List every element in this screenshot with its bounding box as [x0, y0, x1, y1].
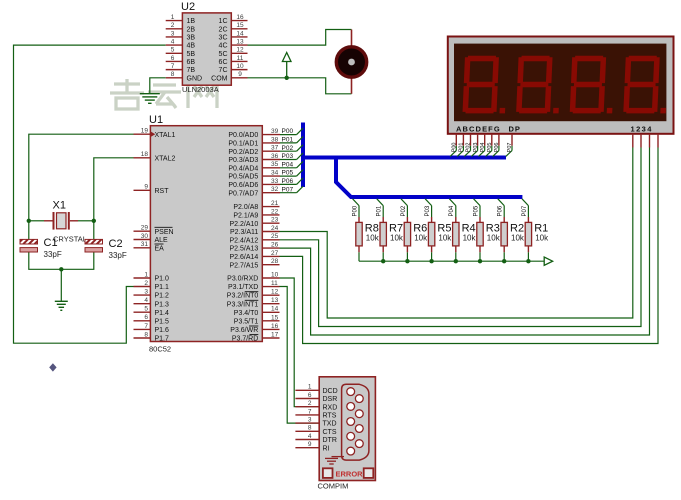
ground crystal	[55, 301, 68, 310]
svg-text:10: 10	[236, 63, 244, 70]
display digit pins 1-4	[633, 134, 658, 148]
svg-text:15: 15	[236, 22, 244, 29]
bus branch down to resistor network	[336, 156, 522, 197]
svg-text:32: 32	[271, 186, 279, 193]
resistor R5 10k	[425, 199, 452, 261]
svg-text:26: 26	[271, 242, 279, 249]
svg-text:C1: C1	[44, 237, 58, 249]
svg-text:P0.2/AD2: P0.2/AD2	[228, 149, 258, 156]
svg-text:37: 37	[271, 145, 279, 152]
svg-text:10k: 10k	[390, 234, 404, 243]
svg-text:9: 9	[144, 184, 148, 191]
svg-text:P2.1/A9: P2.1/A9	[233, 213, 258, 220]
svg-text:39: 39	[271, 128, 279, 135]
junction cap ground node	[59, 267, 63, 271]
wire P2.5 to display digit 3	[280, 148, 650, 336]
svg-text:5: 5	[144, 306, 148, 313]
svg-text:2: 2	[144, 280, 148, 287]
svg-text:ERROR: ERROR	[336, 470, 364, 479]
svg-text:P2.4/A12: P2.4/A12	[229, 237, 258, 244]
wire U2 GND to ground	[150, 78, 166, 94]
svg-text:5C: 5C	[219, 51, 228, 58]
resistor R4 10k	[449, 199, 476, 261]
svg-text:6: 6	[308, 392, 312, 399]
svg-text:RI: RI	[323, 445, 330, 452]
bus horizontal to display segment pins	[301, 156, 506, 160]
svg-text:6C: 6C	[219, 59, 228, 66]
crystal X1	[44, 200, 87, 244]
svg-text:4: 4	[144, 297, 148, 304]
svg-text:4B: 4B	[187, 43, 196, 50]
svg-text:P3.4/T0: P3.4/T0	[234, 310, 259, 317]
svg-text:X1: X1	[53, 200, 66, 212]
power arrow right	[544, 257, 552, 265]
svg-text:3C: 3C	[219, 35, 228, 42]
junction R5 bottom	[429, 259, 433, 263]
svg-text:C2: C2	[109, 238, 123, 250]
capacitor C1	[20, 237, 62, 259]
svg-text:16: 16	[236, 14, 244, 21]
svg-text:14: 14	[271, 306, 279, 313]
resistor R8 10k	[352, 199, 379, 261]
svg-text:ULN2003A: ULN2003A	[182, 85, 219, 94]
svg-text:P0.3/AD3: P0.3/AD3	[228, 157, 258, 164]
origin marker	[49, 363, 56, 371]
svg-text:8: 8	[308, 425, 312, 432]
svg-text:P1.2: P1.2	[155, 293, 170, 300]
svg-text:3B: 3B	[187, 35, 196, 42]
junction R3 bottom	[478, 259, 482, 263]
svg-text:1B: 1B	[187, 18, 196, 25]
svg-text:P06: P06	[494, 143, 500, 153]
svg-text:P2.6/A14: P2.6/A14	[229, 254, 258, 261]
svg-text:P0.0/AD0: P0.0/AD0	[228, 132, 258, 139]
svg-text:11: 11	[271, 280, 278, 287]
display digit 2	[516, 56, 561, 114]
microcontroller U1 80C52	[134, 114, 294, 354]
svg-text:P0.6/AD6: P0.6/AD6	[228, 182, 258, 189]
svg-text:8: 8	[171, 71, 175, 78]
svg-text:P2.7/A15: P2.7/A15	[229, 262, 258, 269]
display digit 1	[462, 56, 507, 114]
svg-text:7: 7	[144, 323, 148, 330]
svg-text:P1.5: P1.5	[155, 318, 170, 325]
wire XTAL2 to crystal right node	[94, 158, 134, 240]
svg-text:P2.5/A13: P2.5/A13	[229, 246, 258, 253]
svg-text:RTS: RTS	[323, 413, 337, 420]
svg-text:34: 34	[271, 170, 279, 177]
junction R2 bottom	[502, 259, 506, 263]
svg-text:P3.3/INT1: P3.3/INT1	[227, 301, 259, 308]
resistor R6 10k	[401, 199, 428, 261]
wire U2 COM to sounder bottom	[248, 78, 352, 94]
svg-text:13: 13	[271, 297, 279, 304]
resistor R3 10k	[473, 199, 500, 261]
svg-text:33: 33	[271, 178, 279, 185]
svg-text:DP: DP	[509, 124, 521, 133]
svg-text:7C: 7C	[219, 67, 228, 74]
junction R1 bottom	[526, 259, 530, 263]
svg-text:35: 35	[271, 161, 279, 168]
svg-text:24: 24	[271, 225, 279, 232]
svg-text:10k: 10k	[463, 234, 477, 243]
node crystal right	[92, 219, 96, 223]
svg-text:P02: P02	[466, 143, 472, 153]
junction R6 bottom	[405, 259, 409, 263]
wire P3.1 TXD to COMPIM	[280, 287, 320, 424]
svg-text:4C: 4C	[219, 43, 228, 50]
svg-text:10: 10	[271, 271, 279, 278]
wire P2.3 to display digit 1	[280, 148, 633, 319]
svg-text:ALE: ALE	[155, 237, 169, 244]
svg-text:P3.1/TXD: P3.1/TXD	[228, 284, 258, 291]
svg-text:15: 15	[271, 314, 279, 321]
serial connector P1 COMPIM	[295, 377, 375, 491]
svg-text:2C: 2C	[219, 26, 228, 33]
svg-text:P1.7: P1.7	[155, 336, 170, 343]
wire C1 C2 bottoms	[29, 252, 94, 269]
svg-text:RXD: RXD	[323, 404, 338, 411]
svg-text:P05: P05	[487, 143, 493, 153]
svg-text:P03: P03	[473, 143, 479, 153]
svg-text:CTS: CTS	[323, 429, 337, 436]
svg-text:38: 38	[271, 136, 279, 143]
svg-text:27: 27	[271, 250, 279, 257]
svg-text:19: 19	[141, 128, 149, 135]
svg-text:10k: 10k	[511, 234, 525, 243]
svg-text:P05: P05	[473, 205, 479, 216]
svg-text:11: 11	[237, 55, 244, 62]
svg-text:P00: P00	[452, 143, 458, 153]
svg-text:DSR: DSR	[323, 396, 338, 403]
svg-text:P3.0/RXD: P3.0/RXD	[227, 276, 258, 283]
svg-text:5: 5	[171, 47, 175, 54]
svg-text:7B: 7B	[187, 67, 196, 74]
svg-text:GND: GND	[187, 75, 203, 82]
svg-text:P1.3: P1.3	[155, 301, 170, 308]
svg-text:33pF: 33pF	[44, 250, 62, 259]
display digit 4	[623, 56, 668, 114]
svg-text:P3.7/RD: P3.7/RD	[232, 336, 258, 343]
svg-text:2: 2	[308, 400, 312, 407]
bus P0 vertical trunk	[301, 123, 305, 188]
svg-text:DCD: DCD	[323, 388, 338, 395]
driver U2 ULN2003A	[166, 1, 248, 94]
svg-text:25: 25	[271, 233, 279, 240]
svg-text:6: 6	[144, 314, 148, 321]
svg-text:9: 9	[238, 71, 242, 78]
sounder / speaker	[336, 30, 366, 94]
svg-text:P07: P07	[507, 143, 513, 153]
svg-text:1: 1	[171, 14, 175, 21]
svg-text:P3.6/WR: P3.6/WR	[230, 327, 258, 334]
svg-text:3: 3	[171, 30, 175, 37]
svg-text:10k: 10k	[438, 234, 452, 243]
svg-text:P2.3/A11: P2.3/A11	[230, 229, 258, 236]
svg-text:P04: P04	[449, 205, 455, 216]
capacitor C2	[85, 238, 127, 260]
4-digit 7-segment display	[448, 37, 674, 134]
svg-text:P01: P01	[377, 205, 383, 216]
svg-text:33pF: 33pF	[109, 251, 127, 260]
svg-text:1: 1	[144, 271, 148, 278]
svg-text:12: 12	[271, 289, 279, 296]
svg-text:36: 36	[271, 153, 279, 160]
junction R7 bottom	[381, 259, 385, 263]
svg-text:1C: 1C	[219, 18, 228, 25]
svg-text:3: 3	[308, 417, 312, 424]
svg-text:10k: 10k	[366, 234, 380, 243]
svg-text:1234: 1234	[631, 124, 653, 133]
wire U2 4B to U1 P1.1	[14, 45, 166, 343]
display digit 3	[570, 56, 615, 114]
svg-text:P0.5/AD5: P0.5/AD5	[228, 174, 258, 181]
resistor R7 10k	[377, 199, 404, 261]
node crystal left	[27, 219, 31, 223]
svg-text:TXD: TXD	[323, 421, 337, 428]
svg-text:2B: 2B	[187, 26, 196, 33]
svg-text:P02: P02	[401, 205, 407, 216]
svg-text:21: 21	[271, 200, 279, 207]
svg-text:13: 13	[236, 39, 244, 46]
svg-text:7: 7	[308, 408, 312, 415]
junction on COM wire	[285, 76, 289, 80]
svg-text:P0.7/AD7: P0.7/AD7	[228, 190, 258, 197]
svg-text:2: 2	[171, 22, 175, 29]
wire P2.6 to display digit 4	[280, 148, 659, 344]
svg-text:P1.0: P1.0	[155, 276, 170, 283]
power symbol on COM wire	[282, 53, 291, 78]
svg-text:18: 18	[141, 151, 149, 158]
svg-text:P2.2/A10: P2.2/A10	[229, 221, 258, 228]
resistor R2 10k	[498, 199, 525, 261]
svg-text:P03: P03	[425, 205, 431, 216]
svg-text:P1.1: P1.1	[155, 284, 170, 291]
svg-text:17: 17	[271, 331, 279, 338]
wire U2 4C to sounder top	[248, 30, 352, 46]
resistor R1 10k	[522, 199, 549, 261]
svg-text:12: 12	[236, 47, 244, 54]
resistor pull-down network wires	[359, 260, 545, 262]
svg-text:COM: COM	[211, 75, 228, 82]
svg-text:29: 29	[141, 225, 149, 232]
svg-text:30: 30	[141, 233, 149, 240]
svg-text:31: 31	[141, 241, 149, 248]
svg-text:16: 16	[271, 323, 279, 330]
svg-text:P0.4/AD4: P0.4/AD4	[228, 165, 258, 172]
svg-text:14: 14	[236, 30, 244, 37]
wire to ground	[60, 269, 62, 301]
svg-text:22: 22	[271, 208, 279, 215]
svg-text:P0.1/AD1: P0.1/AD1	[228, 141, 258, 148]
svg-text:P04: P04	[480, 143, 486, 153]
svg-text:CRYSTAL: CRYSTAL	[53, 235, 87, 244]
svg-text:4: 4	[171, 39, 175, 46]
svg-text:P1.6: P1.6	[155, 327, 170, 334]
wire crystal left	[29, 220, 44, 222]
svg-text:10k: 10k	[535, 234, 549, 243]
svg-text:P3.5/T1: P3.5/T1	[234, 318, 259, 325]
svg-text:8: 8	[144, 331, 148, 338]
svg-text:XTAL2: XTAL2	[155, 155, 176, 162]
svg-text:1: 1	[308, 384, 312, 391]
wire XTAL1 to crystal left node	[29, 134, 134, 239]
svg-text:P3.2/INT0: P3.2/INT0	[227, 293, 259, 300]
svg-text:80C52: 80C52	[149, 345, 171, 354]
svg-text:COMPIM: COMPIM	[318, 482, 349, 491]
svg-text:6: 6	[171, 55, 175, 62]
svg-text:5B: 5B	[187, 51, 196, 58]
display segment pins A-G,DP with net labels	[450, 134, 513, 157]
svg-text:10k: 10k	[414, 234, 428, 243]
svg-text:9: 9	[308, 441, 312, 448]
junction R4 bottom	[454, 259, 458, 263]
svg-text:P2.0/A8: P2.0/A8	[233, 204, 258, 211]
svg-text:U1: U1	[149, 114, 163, 126]
svg-text:P01: P01	[459, 143, 465, 153]
svg-text:P1.4: P1.4	[155, 310, 170, 317]
svg-text:DTR: DTR	[323, 437, 337, 444]
svg-text:23: 23	[271, 217, 279, 224]
svg-text:P07: P07	[522, 205, 528, 216]
svg-text:P00: P00	[352, 205, 358, 216]
svg-text:7: 7	[171, 63, 175, 70]
svg-text:28: 28	[271, 258, 279, 265]
svg-text:XTAL1: XTAL1	[155, 132, 176, 139]
wire P3.0 RXD to COMPIM	[280, 278, 320, 407]
svg-text:EA: EA	[155, 245, 165, 252]
svg-text:6B: 6B	[187, 59, 196, 66]
wire crystal right	[78, 220, 94, 222]
wires P0.0-P0.7 bus entries	[280, 128, 303, 193]
svg-text:ABCDEFG: ABCDEFG	[456, 124, 501, 133]
wire P2.4 to display digit 2	[280, 148, 642, 327]
svg-text:RST: RST	[155, 188, 170, 195]
svg-text:10k: 10k	[487, 234, 501, 243]
svg-text:PSEN: PSEN	[155, 229, 174, 236]
svg-text:3: 3	[144, 289, 148, 296]
svg-text:4: 4	[308, 433, 312, 440]
svg-text:P06: P06	[498, 205, 504, 216]
svg-text:U2: U2	[181, 1, 195, 13]
ground U2	[140, 94, 160, 104]
